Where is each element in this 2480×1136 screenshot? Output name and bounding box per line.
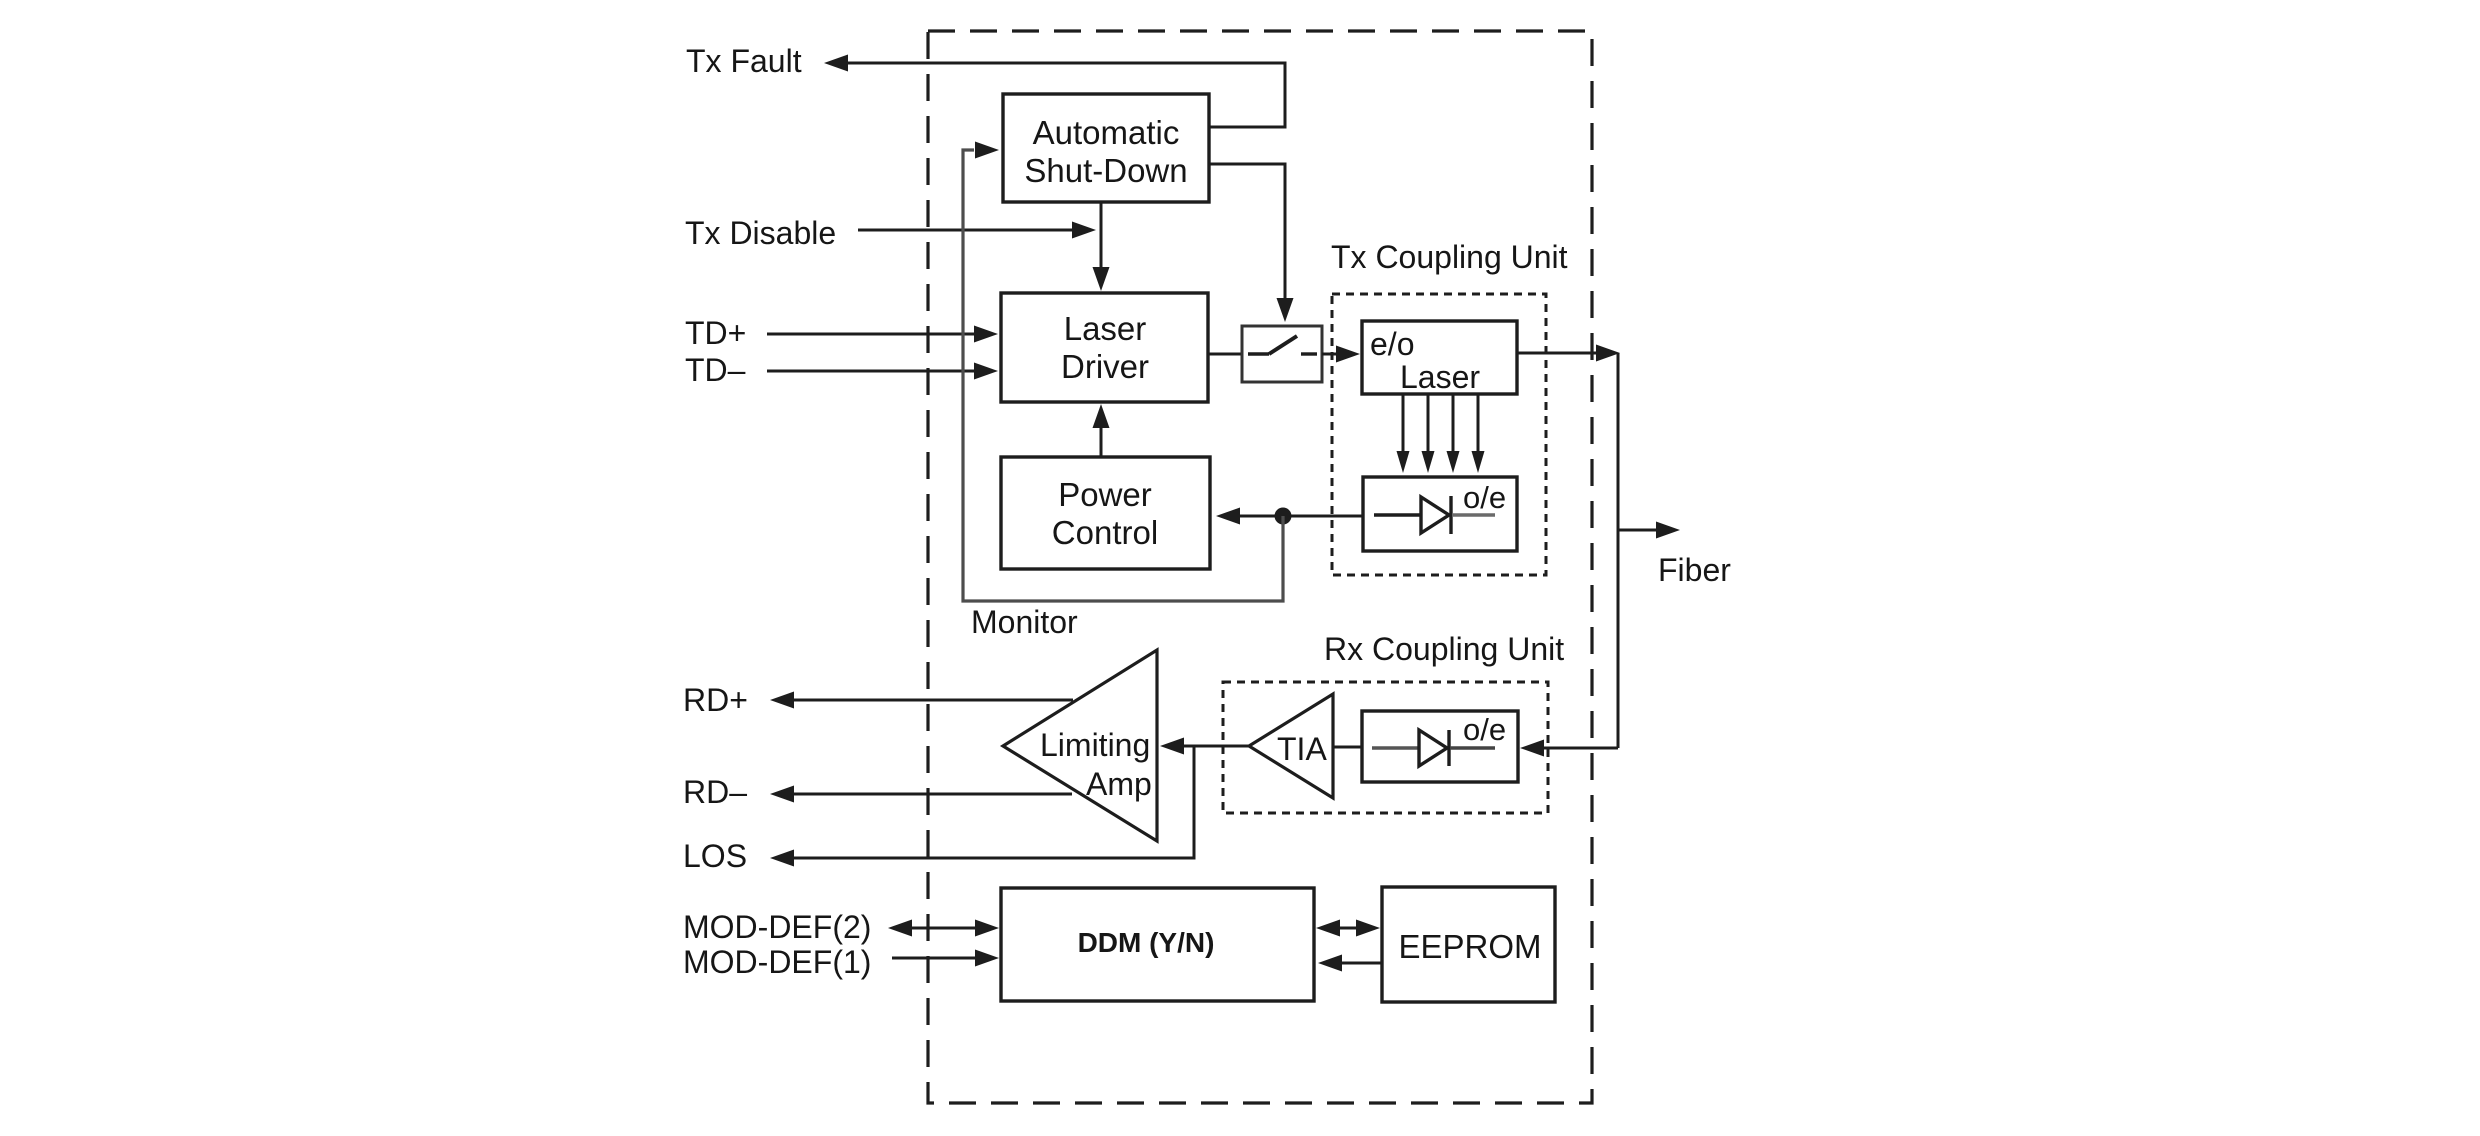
svg-text:TD–: TD– (685, 352, 746, 388)
wire MOD-DEF(1) input (892, 950, 999, 967)
Tx Coupling Unit boundary (dotted) (1332, 294, 1546, 575)
svg-text:Tx Coupling Unit: Tx Coupling Unit (1331, 239, 1568, 275)
wire Power Control to Laser Driver (1093, 404, 1110, 457)
label RD- (683, 774, 747, 810)
wire RD- output (770, 786, 1072, 803)
amplifier Limiting Amp (1003, 650, 1157, 841)
svg-text:e/o: e/o (1370, 326, 1414, 362)
wire fiber output stub (1618, 522, 1680, 539)
label LOS (683, 838, 747, 874)
label MOD-DEF(1) (683, 944, 871, 980)
svg-text:Tx Fault: Tx Fault (686, 43, 802, 79)
wire fiber to Rx photodiode (1520, 740, 1618, 757)
block U1 Automatic Shut-Down (1003, 94, 1209, 202)
svg-text:Automatic: Automatic (1033, 114, 1180, 151)
Rx Coupling Unit boundary (dotted) (1223, 682, 1548, 813)
wire Laser Driver output to switch SW1 (1208, 353, 1242, 356)
label MOD-DEF(2) (683, 909, 871, 945)
svg-text:o/e: o/e (1463, 712, 1506, 747)
svg-text:Limiting: Limiting (1040, 727, 1150, 763)
label Rx Coupling Unit (1324, 631, 1564, 667)
label Tx Fault (686, 43, 802, 79)
svg-text:TD+: TD+ (685, 315, 746, 351)
block D3 Rx photodiode o/e (1362, 711, 1518, 782)
label RD+ (683, 682, 748, 718)
svg-text:EEPROM: EEPROM (1398, 928, 1541, 965)
wire EEPROM to DDM (1318, 955, 1382, 972)
amplifier TIA (transimpedance amp) (1249, 694, 1333, 798)
svg-text:TIA: TIA (1277, 731, 1327, 767)
wire Tx Fault (from Automatic Shut-Down to Tx Fault pin) (824, 55, 1285, 128)
label Monitor (971, 604, 1078, 640)
svg-text:Driver: Driver (1061, 348, 1149, 385)
svg-text:MOD-DEF(2): MOD-DEF(2) (683, 909, 871, 945)
svg-text:RD+: RD+ (683, 682, 748, 718)
svg-text:Power: Power (1058, 476, 1152, 513)
wire TIA to Limiting Amp (1160, 738, 1249, 755)
node monitor junction (1275, 508, 1292, 525)
svg-text:Rx Coupling Unit: Rx Coupling Unit (1324, 631, 1564, 667)
svg-text:Amp: Amp (1086, 766, 1152, 802)
label TD+ (685, 315, 746, 351)
block U2 Laser Driver (1001, 293, 1208, 402)
svg-text:Monitor: Monitor (971, 604, 1078, 640)
wire Tx Disable input (858, 222, 1096, 239)
wire fiber vertical bus (1617, 353, 1620, 748)
wire shutdown control to switch SW1 (1209, 164, 1294, 322)
svg-text:RD–: RD– (683, 774, 747, 810)
wire monitor photodiode to Power Control (1216, 508, 1363, 525)
svg-text:Tx Disable: Tx Disable (685, 215, 836, 251)
wire Automatic Shut-Down to Laser Driver (1093, 202, 1110, 291)
switch SW1 (laser enable switch) (1242, 326, 1322, 382)
block U5 EEPROM (1382, 887, 1555, 1002)
label Fiber (1658, 552, 1731, 588)
wire LOS output (770, 747, 1194, 867)
svg-text:Shut-Down: Shut-Down (1024, 152, 1187, 189)
wire MOD-DEF(2) bidirectional (888, 920, 999, 937)
block U4 DDM controller (1001, 888, 1314, 1001)
block D2 monitor photodiode o/e (1363, 477, 1517, 551)
label Tx Coupling Unit (1331, 239, 1568, 275)
svg-text:Laser: Laser (1400, 359, 1480, 395)
wire e/o laser to fiber node (1517, 345, 1620, 362)
svg-text:Laser: Laser (1064, 310, 1147, 347)
wire DDM to EEPROM bidirectional (1316, 920, 1380, 937)
svg-text:Control: Control (1052, 514, 1158, 551)
svg-text:Fiber: Fiber (1658, 552, 1731, 588)
wire monitor feedback loop to Automatic Shut-Down (963, 142, 1283, 602)
label TD- (685, 352, 746, 388)
svg-text:MOD-DEF(1): MOD-DEF(1) (683, 944, 871, 980)
wire TD+ input (767, 326, 998, 343)
label Tx Disable (685, 215, 836, 251)
block D1 e/o Laser diode (1362, 321, 1517, 395)
svg-text:o/e: o/e (1463, 480, 1506, 515)
module boundary (dashed SFP transceiver outline) (928, 31, 1592, 1103)
wire Rx photodiode to TIA (1333, 746, 1362, 749)
block U3 Power Control (1001, 457, 1210, 569)
svg-text:DDM (Y/N): DDM (Y/N) (1078, 927, 1215, 958)
svg-text:LOS: LOS (683, 838, 747, 874)
wire RD+ output (770, 692, 1073, 709)
wire switch SW1 to e/o laser (1322, 346, 1360, 363)
wire TD- input (767, 363, 998, 380)
wires laser optical monitor arrows (4) (1397, 394, 1485, 473)
